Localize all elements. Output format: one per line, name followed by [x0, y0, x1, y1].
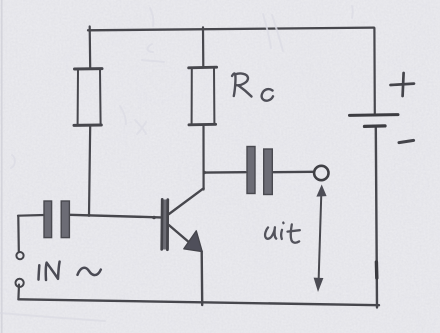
wire C2 to output terminal — [274, 171, 314, 174]
wire left to C1 — [18, 214, 45, 217]
resistor R1 — [74, 69, 102, 126]
label uit — [265, 223, 300, 243]
wire emitter to bottom rail — [200, 252, 203, 306]
wire Rc bottom to collector node — [202, 125, 204, 190]
wire R1 bottom to base node — [89, 126, 90, 216]
measurement arrow (uit span) — [314, 185, 327, 293]
battery V1 short plate — [365, 124, 386, 128]
capacitor C2 plate left — [247, 147, 255, 194]
label Rc — [232, 73, 273, 100]
label IN — [39, 262, 101, 280]
wire IN bottom terminal to bottom rail — [17, 285, 20, 300]
battery - label — [399, 140, 414, 142]
node base junction — [152, 216, 156, 220]
wire IN top terminal to base wire — [17, 216, 20, 252]
capacitor C2 plate right — [264, 149, 273, 195]
transistor Q1 collector lead — [169, 188, 204, 214]
wire top-left drop to R1 — [89, 27, 92, 69]
wire top rail — [88, 28, 374, 31]
wire top rail drop to Rc — [202, 27, 205, 67]
wire bottom rail — [19, 299, 380, 305]
wire collector node to C2 — [204, 171, 246, 174]
label ~ (IN source) — [78, 268, 101, 275]
transistor Q1 emitter arrowhead — [184, 231, 202, 252]
paper crease shadow — [0, 313, 105, 321]
battery + label — [391, 73, 415, 96]
node collector-output junction — [203, 171, 206, 174]
ghost bleed-through marks — [0, 6, 353, 321]
terminal circle IN top — [16, 252, 23, 259]
wire right rail dark overdraw — [375, 262, 379, 278]
node R1-base junction — [87, 214, 90, 217]
transistor Q1 emitter lead — [169, 225, 191, 244]
scan edge left — [1, 0, 3, 333]
capacitor C1 plate right — [61, 201, 69, 238]
output terminal circle — [314, 166, 328, 180]
transistor Q1 base bar — [161, 199, 169, 250]
battery V1 long plate — [350, 113, 399, 117]
wire right rail bottom (battery - to bottom rail) — [376, 128, 377, 308]
terminal circle IN bottom — [16, 279, 24, 287]
wire C1 to base — [70, 215, 161, 218]
wire right rail top (to battery +) — [373, 28, 376, 114]
resistor Rc — [189, 67, 217, 125]
capacitor C1 plate left — [44, 201, 52, 238]
